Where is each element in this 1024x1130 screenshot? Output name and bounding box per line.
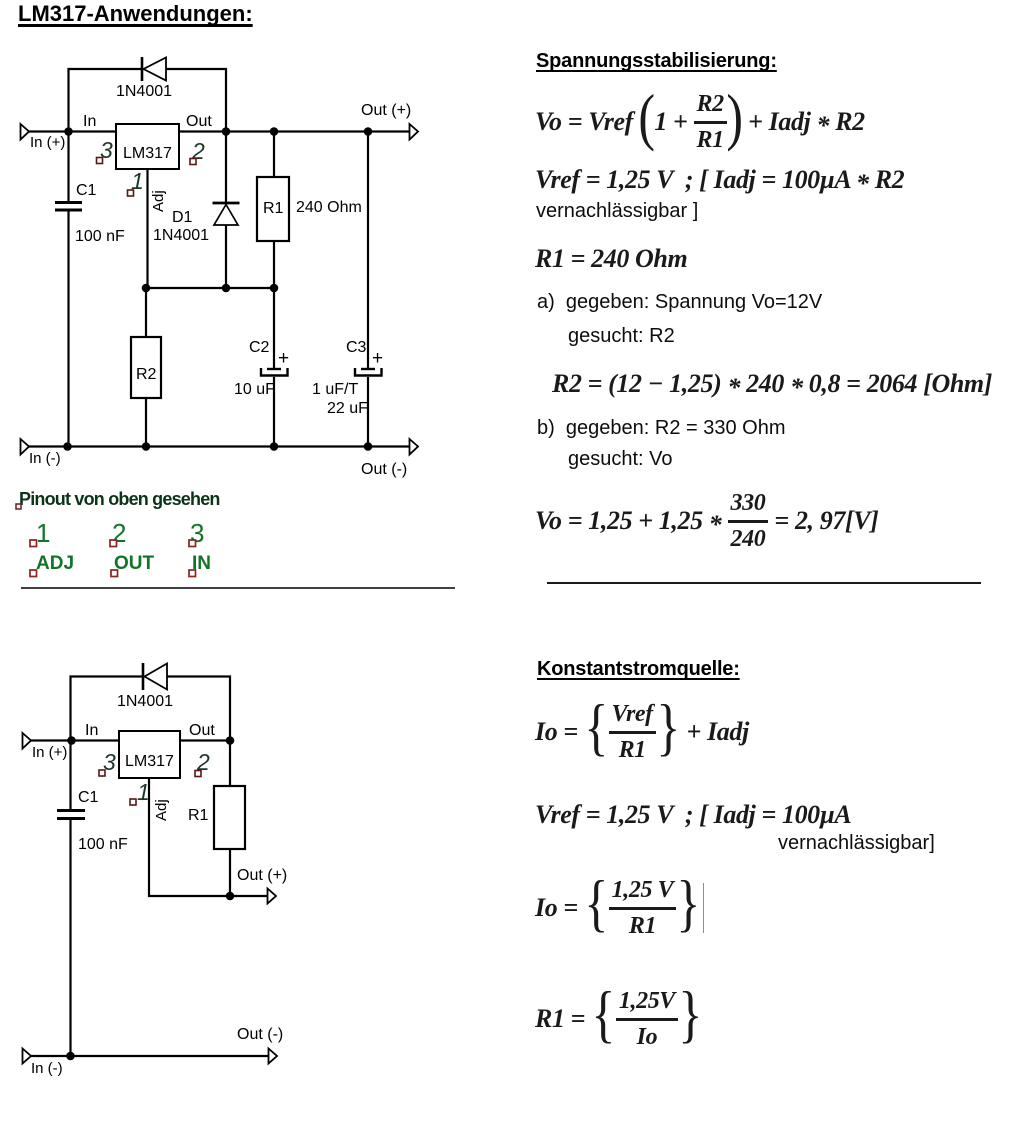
output connector Out (-) xyxy=(361,439,418,478)
svg-text:1N4001: 1N4001 xyxy=(117,693,173,710)
node junction adj rail D1 xyxy=(222,284,231,293)
svg-text:D1: D1 xyxy=(172,209,193,226)
title LM317-Anwendungen xyxy=(18,1,253,27)
svg-text:LM317: LM317 xyxy=(125,753,174,770)
node junction Out(+) circuit2 xyxy=(226,892,235,901)
node junction Out xyxy=(222,127,231,136)
wire top diode branch circuit2 xyxy=(71,677,143,741)
separator line left column xyxy=(21,587,455,589)
svg-text:1N4001: 1N4001 xyxy=(153,227,209,244)
capacitor C3 electrolytic xyxy=(355,132,382,448)
pin 1 xyxy=(128,168,144,196)
input connector In (+) circuit2 xyxy=(23,733,68,761)
svg-text:In (+): In (+) xyxy=(30,134,65,151)
formula R2 = 2064 Ohm xyxy=(552,369,992,399)
svg-text:In (+): In (+) xyxy=(32,744,67,761)
diode D1 xyxy=(213,132,240,289)
svg-text:100 nF: 100 nF xyxy=(78,836,128,853)
text gesucht Vo xyxy=(568,448,673,471)
heading Spannungsstabilisierung xyxy=(536,50,777,73)
wire top diode branch right circuit2 xyxy=(167,677,230,741)
formula Vo = 2,97 V xyxy=(535,492,878,550)
svg-text:+: + xyxy=(372,348,383,369)
pin label 2 xyxy=(110,518,126,548)
formula Io = {Vref/R1} + Iadj xyxy=(535,705,749,759)
svg-text:Adj: Adj xyxy=(150,190,167,212)
svg-text:In (-): In (-) xyxy=(31,1060,63,1077)
output connector Out (+) xyxy=(361,102,418,140)
diode D2 protection (top) xyxy=(142,57,166,81)
svg-text:C1: C1 xyxy=(76,182,97,199)
text vernachlaessigbar xyxy=(536,200,698,223)
capacitor C1 circuit2 xyxy=(57,741,85,1057)
text gesucht R2 xyxy=(568,325,675,348)
capacitor C1 xyxy=(55,132,82,448)
node junction bottom circuit2 xyxy=(66,1052,75,1061)
output connector Out (-) circuit2 xyxy=(237,1026,283,1064)
regulator U2 LM317 circuit2 xyxy=(119,731,180,778)
text a) gegeben xyxy=(537,291,822,314)
svg-text:Out (+): Out (+) xyxy=(361,102,411,119)
node junction adj rail R1/C2 xyxy=(270,284,279,293)
output connector Out (+) circuit2 xyxy=(237,867,287,904)
svg-text:100 nF: 100 nF xyxy=(75,228,125,245)
pin label 3 xyxy=(189,518,204,548)
pin 2 circuit2 xyxy=(195,749,210,777)
pin name ADJ xyxy=(30,553,74,577)
heading Konstantstromquelle xyxy=(537,658,740,681)
wire top diode branch left xyxy=(69,69,142,132)
formula Vref = 1,25 V Iadj xyxy=(535,800,851,830)
node junction C3 top xyxy=(364,127,373,136)
svg-text:OUT: OUT xyxy=(114,553,155,574)
svg-text:240 Ohm: 240 Ohm xyxy=(296,199,362,216)
svg-text:In (-): In (-) xyxy=(29,450,61,467)
diode D3 protection circuit2 xyxy=(143,663,167,690)
pin 3 xyxy=(97,137,114,164)
svg-text:R1: R1 xyxy=(263,200,284,217)
node junction bottom C2 xyxy=(270,442,279,451)
pin name IN xyxy=(189,553,211,577)
svg-text:10 uF: 10 uF xyxy=(234,381,275,398)
pin label 1 xyxy=(30,518,50,548)
formula Io = {1,25V/R1} xyxy=(535,880,704,936)
svg-text:Out: Out xyxy=(186,113,212,130)
node junction Out circuit2 xyxy=(226,736,235,745)
input connector In (-) xyxy=(21,439,61,467)
svg-text:+: + xyxy=(278,348,289,369)
svg-text:Adj: Adj xyxy=(153,799,170,821)
formula Vref = 1,25V xyxy=(535,165,904,195)
resistor R1 circuit2 xyxy=(214,741,245,897)
svg-text:1: 1 xyxy=(137,779,150,805)
node junction adj rail left xyxy=(142,284,151,293)
svg-text:1N4001: 1N4001 xyxy=(116,83,172,100)
svg-text:Out (-): Out (-) xyxy=(237,1026,283,1043)
formula R1 = 240 Ohm xyxy=(535,244,687,274)
node junction In circuit2 xyxy=(67,736,76,745)
node junction R1 top xyxy=(270,127,279,136)
svg-text:Out (-): Out (-) xyxy=(361,461,407,478)
svg-text:C3: C3 xyxy=(346,339,367,356)
formula Vo = Vref(1+R2/R1)+Iadj*R2 xyxy=(535,89,865,155)
svg-text:Out: Out xyxy=(189,722,215,739)
node junction bottom C3 xyxy=(364,442,373,451)
label Pinout von oben gesehen xyxy=(16,489,220,509)
wire bottom rail circuit2 xyxy=(31,1055,269,1057)
regulator U1 LM317 xyxy=(116,124,179,169)
node junction bottom R2 xyxy=(142,442,151,451)
resistor R1 xyxy=(257,132,289,289)
pin name OUT xyxy=(111,553,155,577)
formula R1 = {1,25V/Io} xyxy=(535,991,703,1047)
wire main rail In to Out xyxy=(28,130,410,132)
capacitor C2 electrolytic xyxy=(261,288,288,447)
svg-text:Out (+): Out (+) xyxy=(237,867,287,884)
resistor R2 xyxy=(131,288,161,447)
svg-text:C1: C1 xyxy=(78,789,99,806)
svg-text:In: In xyxy=(85,722,98,739)
svg-text:R1: R1 xyxy=(188,807,209,824)
pin 2 xyxy=(190,138,205,165)
pin 1 circuit2 xyxy=(130,779,150,805)
svg-text:Pinout von oben gesehen: Pinout von oben gesehen xyxy=(19,489,220,509)
wire adj rail horizontal xyxy=(146,287,274,289)
wire Adj pin down circuit2 xyxy=(149,778,268,896)
svg-text:1: 1 xyxy=(36,518,50,548)
wire main rail circuit2 xyxy=(31,739,230,741)
wire Adj pin down xyxy=(146,169,148,288)
svg-text:LM317: LM317 xyxy=(123,145,172,162)
text vernachlaessigbar 2 xyxy=(778,832,935,855)
pin 3 circuit2 xyxy=(99,749,116,776)
svg-text:ADJ: ADJ xyxy=(36,553,74,574)
text b) gegeben xyxy=(537,417,786,440)
separator line right column xyxy=(547,582,981,584)
input connector In (+) xyxy=(21,124,66,151)
svg-text:R2: R2 xyxy=(136,366,157,383)
node junction bottom C1 xyxy=(63,442,72,451)
wire top diode branch right xyxy=(166,69,226,132)
svg-text:22 uF: 22 uF xyxy=(327,400,368,417)
svg-text:1 uF/T: 1 uF/T xyxy=(312,381,358,398)
svg-text:In: In xyxy=(83,113,96,130)
node junction In xyxy=(64,127,73,136)
input connector In (-) circuit2 xyxy=(23,1049,63,1078)
wire bottom rail xyxy=(28,445,410,447)
svg-text:C2: C2 xyxy=(249,339,270,356)
